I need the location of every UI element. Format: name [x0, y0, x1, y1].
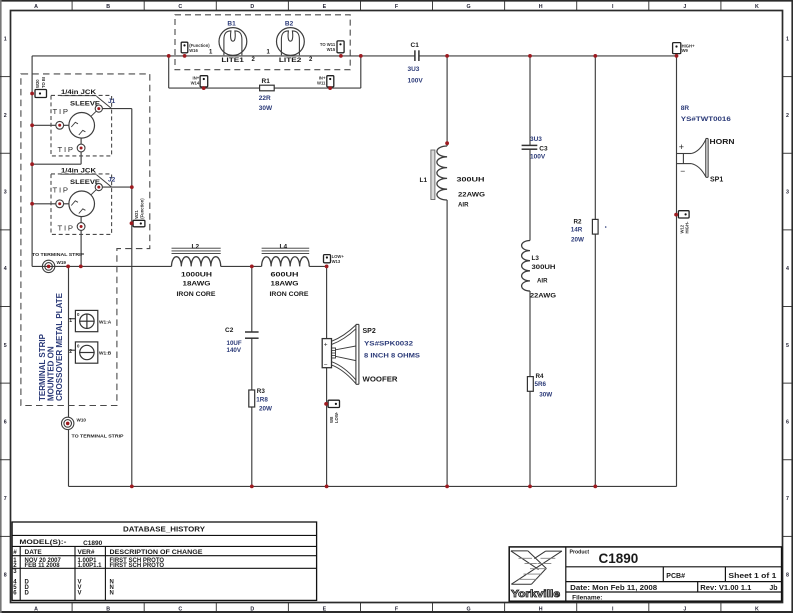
svg-text:6: 6	[786, 419, 789, 425]
svg-text:E: E	[323, 4, 327, 10]
svg-text:W13: W13	[332, 259, 341, 264]
svg-text:1R8: 1R8	[256, 396, 268, 403]
svg-text:4: 4	[786, 266, 789, 272]
svg-text:W11: W11	[317, 80, 326, 85]
svg-text:Filename:: Filename:	[572, 595, 602, 602]
svg-text:LITE2: LITE2	[279, 57, 302, 64]
svg-text:10UF: 10UF	[227, 340, 242, 347]
svg-text:100V: 100V	[530, 154, 546, 161]
svg-text:HIGH-: HIGH-	[685, 221, 690, 233]
svg-text:5R6: 5R6	[535, 381, 547, 388]
svg-text:Sheet 1 of 1: Sheet 1 of 1	[728, 573, 776, 580]
svg-text:W12: W12	[679, 224, 684, 233]
svg-text:R4: R4	[536, 373, 545, 380]
svg-text:TIP: TIP	[58, 223, 75, 232]
svg-text:1/4in JCK: 1/4in JCK	[61, 168, 97, 175]
svg-text:100V: 100V	[408, 78, 424, 85]
svg-text:1.00P1.1: 1.00P1.1	[78, 563, 103, 569]
svg-text:4: 4	[4, 266, 7, 272]
svg-text:YS#SPK0032: YS#SPK0032	[364, 341, 413, 348]
svg-text:R3: R3	[257, 388, 266, 395]
svg-text:DATABASE_HISTORY: DATABASE_HISTORY	[123, 527, 205, 534]
svg-text:L2: L2	[192, 243, 200, 250]
svg-text:2: 2	[4, 113, 7, 119]
svg-text:5: 5	[4, 343, 7, 349]
svg-text:K: K	[755, 607, 759, 613]
svg-text:TO TERMINAL STRIP: TO TERMINAL STRIP	[72, 434, 124, 439]
svg-text:22R: 22R	[259, 95, 271, 102]
svg-text:R2: R2	[574, 219, 583, 226]
svg-text:YS#TWT0016: YS#TWT0016	[681, 116, 731, 123]
svg-text:FIRST SCH PROTO: FIRST SCH PROTO	[110, 563, 165, 569]
svg-text:MODEL(S):-: MODEL(S):-	[19, 539, 66, 546]
svg-text:B: B	[106, 607, 110, 613]
svg-text:1000UH: 1000UH	[181, 272, 213, 279]
svg-text:LOW-: LOW-	[334, 411, 339, 423]
svg-text:A: A	[34, 607, 38, 613]
svg-text:1: 1	[786, 36, 789, 42]
svg-text:W20: W20	[35, 79, 40, 88]
svg-text:H: H	[539, 4, 543, 10]
svg-text:Jb: Jb	[769, 585, 777, 592]
svg-text:3U3: 3U3	[530, 136, 542, 143]
svg-text:8: 8	[786, 573, 789, 579]
svg-text:L3: L3	[532, 255, 540, 262]
svg-text:IRON CORE: IRON CORE	[270, 292, 309, 298]
svg-text:C2: C2	[225, 327, 234, 334]
svg-text:W16: W16	[189, 48, 198, 53]
svg-text:VER#: VER#	[78, 549, 95, 556]
svg-text:C1890: C1890	[599, 551, 639, 566]
svg-text:140V: 140V	[227, 347, 242, 354]
svg-text:L4: L4	[280, 243, 288, 250]
svg-text:SP1: SP1	[710, 177, 723, 184]
svg-text:A: A	[34, 4, 38, 10]
svg-text:C: C	[178, 607, 182, 613]
svg-text:7: 7	[786, 496, 789, 502]
svg-text:SP2: SP2	[363, 328, 376, 335]
svg-text:W14: W14	[191, 80, 200, 85]
svg-text:8R: 8R	[681, 105, 690, 112]
svg-text:CROSSOVER METAL PLATE: CROSSOVER METAL PLATE	[55, 292, 64, 401]
svg-text:−: −	[680, 166, 685, 176]
svg-text:IRON CORE: IRON CORE	[177, 292, 216, 298]
svg-text:14R: 14R	[571, 226, 583, 233]
svg-text:H: H	[539, 607, 543, 613]
svg-text:3: 3	[4, 190, 7, 196]
svg-text:DESCRIPTION OF CHANGE: DESCRIPTION OF CHANGE	[110, 549, 204, 556]
svg-text:W9: W9	[682, 48, 689, 53]
svg-text:TO BI: TO BI	[41, 77, 46, 88]
svg-text:B2: B2	[285, 21, 294, 28]
svg-text:B: B	[106, 4, 110, 10]
svg-text:B1: B1	[227, 21, 236, 28]
svg-text:PCB#: PCB#	[666, 573, 685, 580]
svg-text:J: J	[683, 607, 686, 613]
svg-text:TIP: TIP	[53, 107, 70, 116]
svg-text:22AWG: 22AWG	[530, 292, 556, 299]
svg-text:C1: C1	[411, 42, 420, 49]
svg-text:18AWG: 18AWG	[271, 281, 299, 288]
svg-text:W21: W21	[134, 210, 139, 219]
svg-text:5: 5	[786, 343, 789, 349]
svg-text:600UH: 600UH	[271, 272, 300, 279]
svg-text:Yorkville: Yorkville	[511, 589, 560, 600]
svg-text:3: 3	[786, 190, 789, 196]
svg-text:20W: 20W	[259, 405, 272, 412]
svg-text:AIR: AIR	[537, 277, 548, 284]
svg-text:D: D	[250, 607, 254, 613]
svg-text:C3: C3	[539, 146, 548, 153]
svg-text:−: −	[324, 362, 328, 369]
svg-text:2: 2	[786, 113, 789, 119]
svg-text:HORN: HORN	[710, 139, 735, 146]
svg-text:J1: J1	[108, 98, 116, 105]
svg-text:N: N	[110, 590, 114, 596]
svg-text:W15: W15	[327, 47, 336, 52]
svg-text:+: +	[679, 142, 684, 152]
svg-text:300UH: 300UH	[532, 264, 557, 271]
svg-text:TIP: TIP	[58, 145, 75, 154]
svg-text:D: D	[25, 590, 30, 596]
svg-text:D: D	[250, 4, 254, 10]
svg-text:FEB 11 2008: FEB 11 2008	[25, 563, 61, 569]
svg-text:W8: W8	[329, 416, 334, 423]
svg-text:3U3: 3U3	[408, 66, 420, 73]
svg-text:G: G	[467, 4, 471, 10]
svg-text:E: E	[323, 607, 327, 613]
svg-text:30W: 30W	[259, 105, 273, 112]
svg-text:1: 1	[69, 318, 72, 324]
svg-text:30W: 30W	[539, 392, 552, 399]
svg-text:L1: L1	[420, 177, 428, 184]
svg-text:G: G	[467, 607, 471, 613]
svg-text:8 INCH 8 OHMS: 8 INCH 8 OHMS	[364, 352, 421, 359]
svg-text:Date: Mon Feb 11, 2008: Date: Mon Feb 11, 2008	[570, 585, 657, 592]
svg-text:300UH: 300UH	[457, 177, 486, 184]
svg-text:1: 1	[4, 36, 7, 42]
svg-text:K: K	[755, 4, 759, 10]
svg-text:J: J	[683, 4, 686, 10]
svg-text:WOOFER: WOOFER	[363, 377, 398, 384]
svg-text:W1:A: W1:A	[99, 319, 112, 325]
svg-text:C: C	[178, 4, 182, 10]
svg-text:2: 2	[69, 349, 72, 355]
svg-text:R1: R1	[262, 78, 271, 85]
svg-text:+: +	[324, 341, 328, 348]
svg-text:V: V	[78, 590, 82, 596]
svg-text:(Function): (Function)	[140, 198, 145, 219]
svg-text:8: 8	[4, 573, 7, 579]
svg-text:TIP: TIP	[53, 185, 70, 194]
svg-text:Product: Product	[570, 550, 590, 556]
svg-text:Rev: V1.00 1.1: Rev: V1.00 1.1	[700, 585, 751, 592]
svg-text:J2: J2	[108, 177, 116, 184]
svg-text:C1890: C1890	[83, 540, 103, 547]
svg-text:22AWG: 22AWG	[458, 191, 485, 198]
svg-text:#: #	[13, 549, 17, 556]
svg-text:6: 6	[4, 419, 7, 425]
svg-text:18AWG: 18AWG	[183, 281, 211, 288]
svg-text:7: 7	[4, 496, 7, 502]
svg-text:20W: 20W	[571, 237, 584, 244]
svg-text:AIR: AIR	[458, 202, 469, 209]
svg-text:W10: W10	[77, 418, 87, 423]
svg-text:TO TERMINAL STRIP: TO TERMINAL STRIP	[32, 252, 84, 257]
svg-text:DATE: DATE	[25, 549, 43, 556]
svg-text:W19: W19	[57, 260, 67, 265]
svg-text:W1:B: W1:B	[99, 351, 112, 357]
svg-text:LITE1: LITE1	[221, 57, 244, 64]
svg-text:1/4in JCK: 1/4in JCK	[61, 89, 97, 96]
